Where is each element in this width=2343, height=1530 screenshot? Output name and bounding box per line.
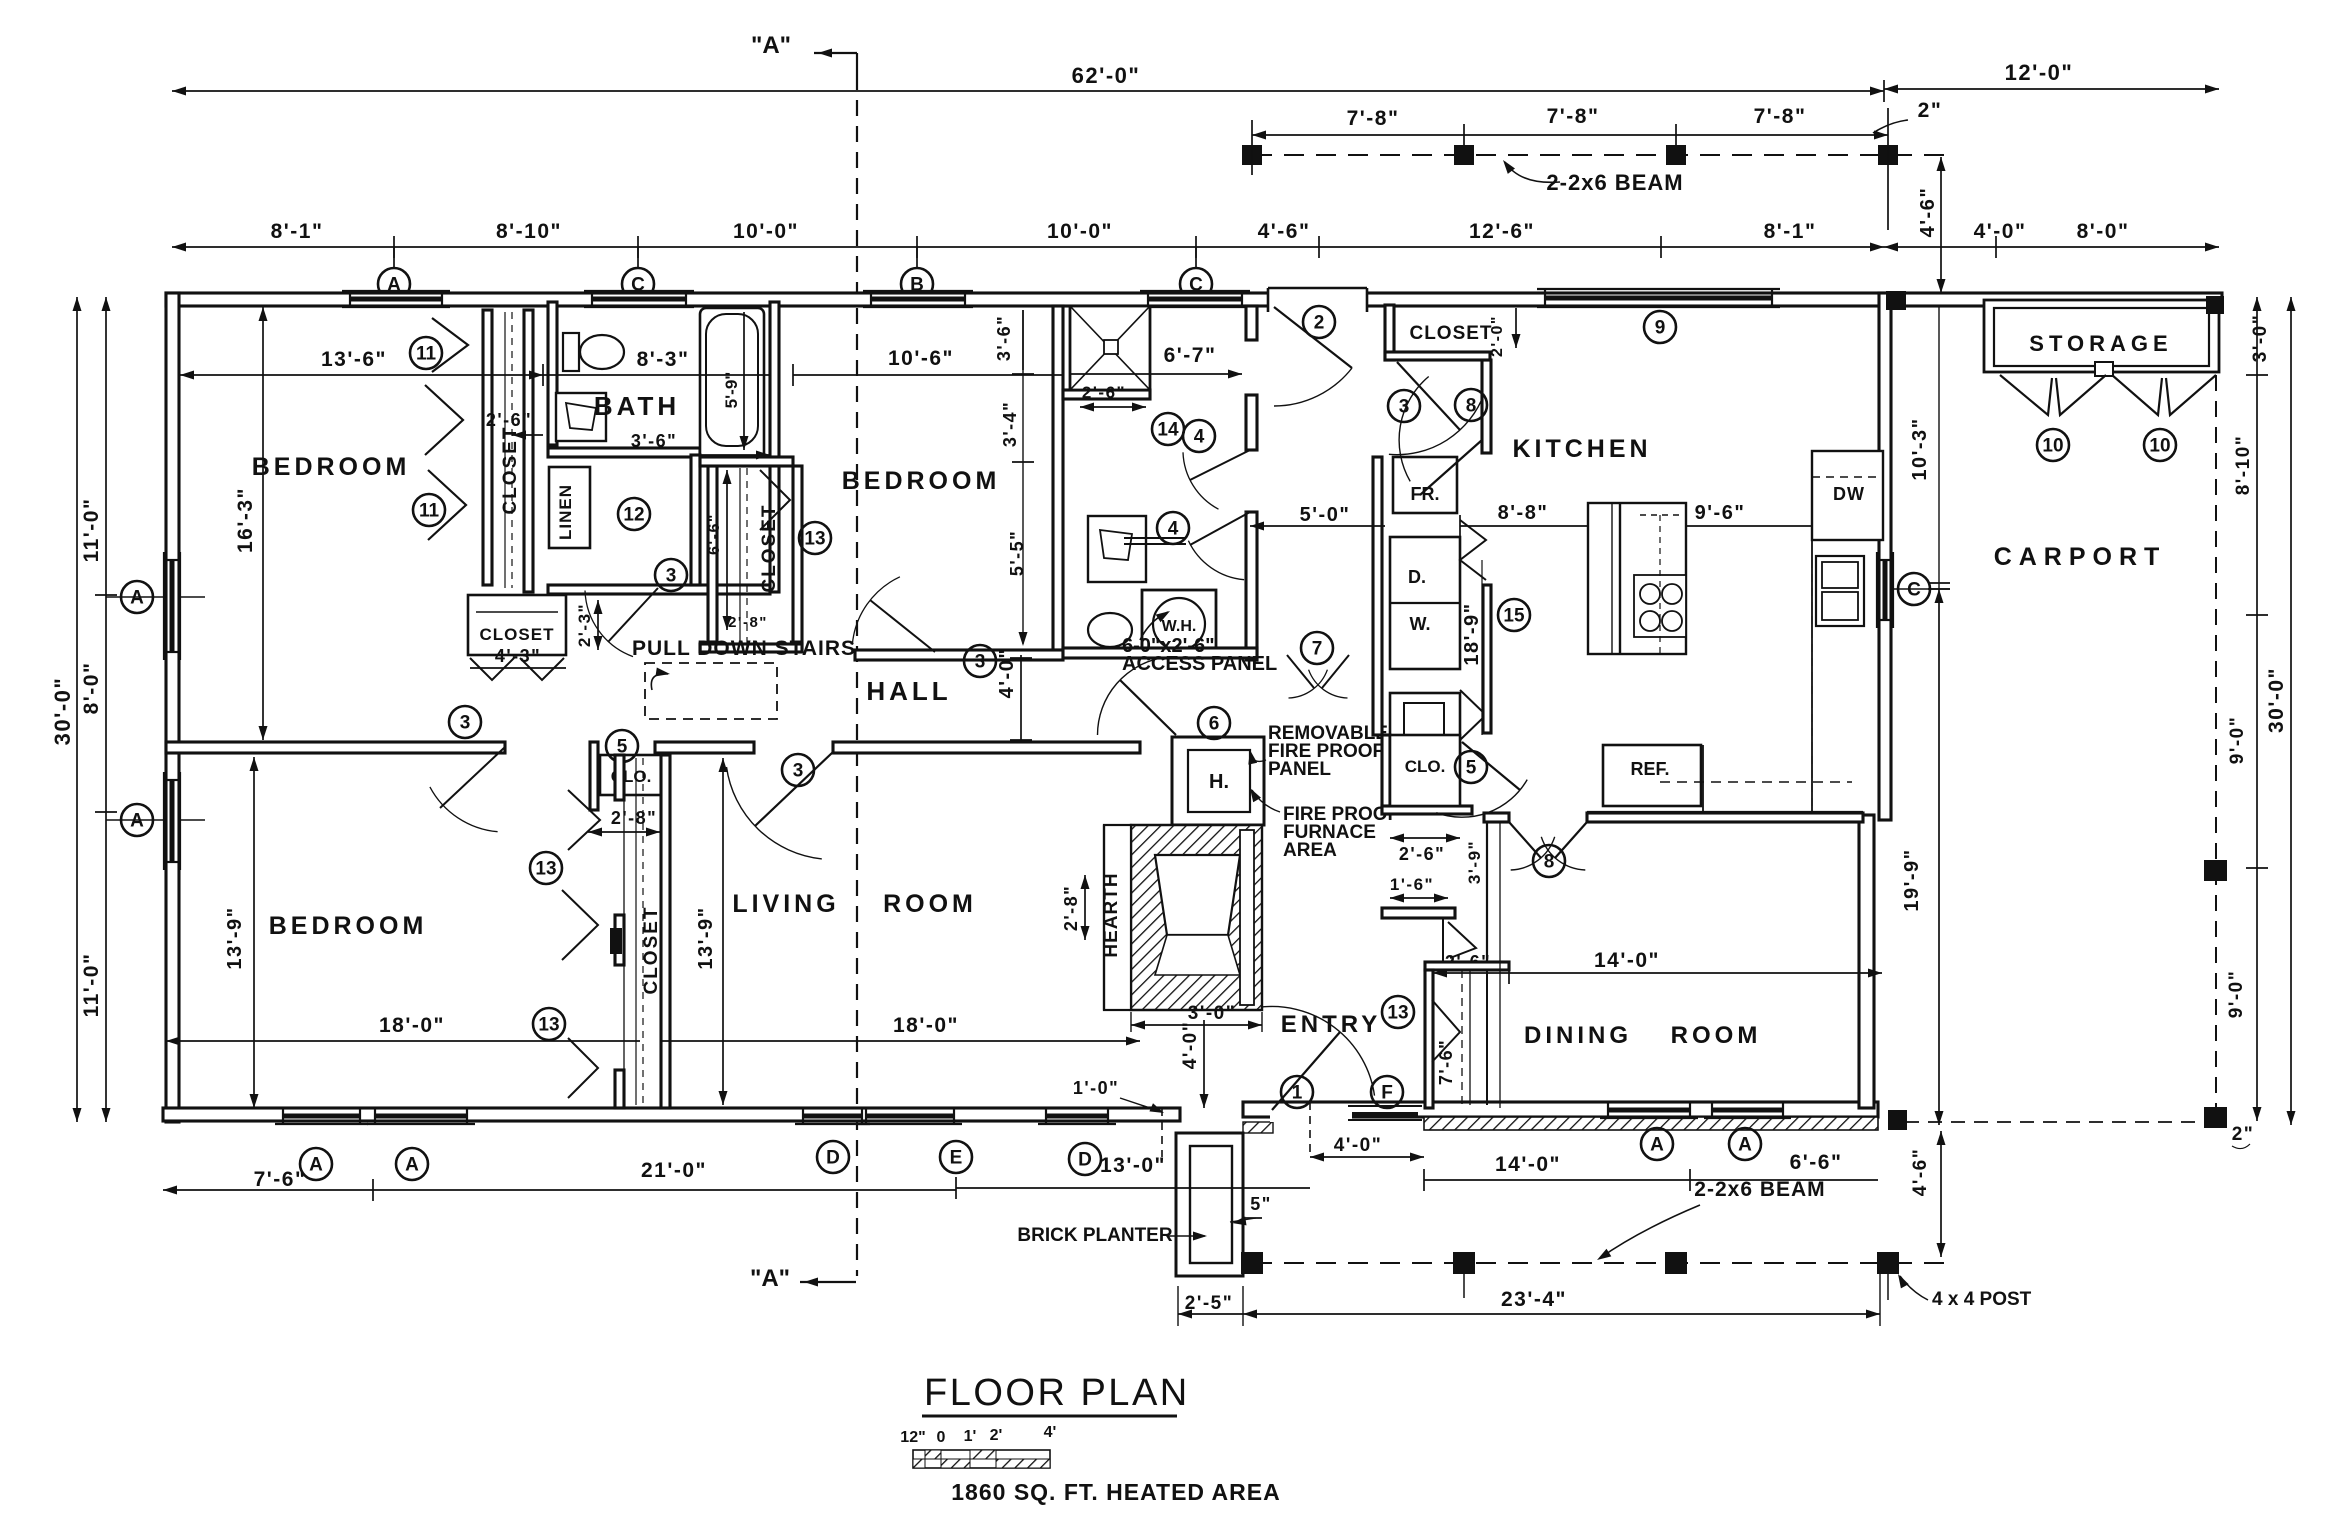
svg-text:3: 3 [975, 652, 986, 673]
svg-text:6'-7": 6'-7" [1164, 344, 1217, 367]
svg-text:12'-6": 12'-6" [1469, 220, 1535, 243]
svg-text:REF.: REF. [1630, 759, 1669, 779]
svg-text:62'-0": 62'-0" [1072, 63, 1141, 88]
svg-text:10'-3": 10'-3" [1909, 417, 1931, 480]
svg-text:2'-6": 2'-6" [486, 410, 532, 430]
svg-text:5'-0": 5'-0" [1300, 504, 1351, 526]
svg-text:8'-8": 8'-8" [1498, 502, 1549, 524]
svg-text:7: 7 [1312, 639, 1323, 660]
svg-text:CLOSET: CLOSET [641, 905, 662, 994]
svg-text:4: 4 [1194, 427, 1205, 448]
svg-text:BEDROOM: BEDROOM [842, 467, 1001, 495]
svg-text:18'-0": 18'-0" [893, 1014, 959, 1037]
svg-text:1'-0": 1'-0" [1073, 1078, 1119, 1098]
svg-text:13: 13 [804, 529, 825, 550]
svg-text:CLOSET: CLOSET [500, 425, 521, 514]
svg-text:3: 3 [460, 713, 471, 734]
svg-text:LIVING: LIVING [732, 890, 839, 918]
svg-text:W.H.: W.H. [1162, 618, 1197, 635]
svg-text:30'-0": 30'-0" [2265, 667, 2288, 733]
svg-text:D.: D. [1408, 567, 1426, 587]
svg-text:19'-9": 19'-9" [1901, 848, 1923, 911]
svg-text:H.: H. [1209, 771, 1229, 793]
svg-text:CLOSET: CLOSET [1409, 323, 1492, 344]
svg-text:7'-8": 7'-8" [1754, 105, 1807, 128]
svg-text:3: 3 [793, 761, 804, 782]
svg-text:FLOOR PLAN: FLOOR PLAN [924, 1372, 1190, 1414]
svg-text:E: E [950, 1148, 963, 1169]
svg-text:13: 13 [535, 859, 556, 880]
svg-text:CLO.: CLO. [1405, 757, 1446, 776]
svg-text:18'-9": 18'-9" [1461, 602, 1483, 665]
svg-text:4'-0": 4'-0" [996, 648, 1018, 699]
svg-text:4'-6": 4'-6" [1917, 187, 1939, 238]
svg-text:2'-3": 2'-3" [575, 603, 594, 647]
svg-text:13'-6": 13'-6" [321, 348, 387, 371]
svg-text:2'-0": 2'-0" [1489, 315, 1506, 357]
svg-text:11'-0": 11'-0" [80, 498, 103, 563]
svg-text:6: 6 [1209, 714, 1220, 735]
svg-text:2-2x6 BEAM: 2-2x6 BEAM [1546, 170, 1683, 195]
svg-text:D: D [826, 1148, 840, 1169]
svg-text:DINING: DINING [1524, 1022, 1632, 1049]
svg-text:9'-0": 9'-0" [2226, 970, 2247, 1019]
svg-text:8'-0": 8'-0" [2077, 220, 2130, 243]
svg-text:W.: W. [1410, 614, 1431, 634]
svg-text:13: 13 [1387, 1003, 1408, 1024]
svg-text:7'-6": 7'-6" [254, 1168, 307, 1191]
svg-text:2-2x6 BEAM: 2-2x6 BEAM [1694, 1178, 1825, 1201]
svg-text:CLOSET: CLOSET [480, 625, 555, 644]
svg-text:11: 11 [416, 344, 437, 365]
svg-text:1860 SQ. FT. HEATED AREA: 1860 SQ. FT. HEATED AREA [951, 1479, 1280, 1505]
svg-text:KITCHEN: KITCHEN [1512, 435, 1651, 463]
svg-text:ENTRY: ENTRY [1281, 1011, 1381, 1038]
svg-text:16'-3": 16'-3" [234, 487, 257, 553]
svg-text:2'-5": 2'-5" [1185, 1293, 1234, 1314]
svg-text:4'-0": 4'-0" [1334, 1135, 1383, 1156]
svg-text:5: 5 [1466, 758, 1477, 779]
svg-text:2: 2 [1314, 313, 1325, 334]
svg-text:3'-6": 3'-6" [631, 431, 677, 451]
svg-text:13'-9": 13'-9" [695, 906, 717, 969]
svg-text:"A": "A" [751, 32, 791, 59]
svg-text:4'-0": 4'-0" [1974, 220, 2027, 243]
svg-text:A: A [1738, 1135, 1752, 1156]
svg-text:F: F [1381, 1083, 1393, 1104]
svg-text:8'-10": 8'-10" [496, 220, 562, 243]
svg-text:8: 8 [1544, 852, 1555, 873]
svg-text:4 x 4 POST: 4 x 4 POST [1932, 1289, 2032, 1310]
svg-text:ROOM: ROOM [1671, 1022, 1762, 1049]
svg-text:12: 12 [623, 505, 644, 526]
svg-text:C: C [1907, 580, 1921, 601]
svg-text:12": 12" [900, 1429, 925, 1446]
svg-text:3'-0": 3'-0" [2250, 314, 2271, 363]
svg-text:9'-6": 9'-6" [1695, 502, 1746, 524]
svg-text:2'-8": 2'-8" [1061, 885, 1081, 931]
svg-text:CARPORT: CARPORT [1994, 543, 2167, 571]
svg-text:10'-0": 10'-0" [1047, 220, 1113, 243]
svg-text:8'-0": 8'-0" [80, 662, 103, 715]
svg-text:BATH: BATH [594, 391, 680, 421]
svg-text:1: 1 [1292, 1083, 1303, 1104]
svg-text:3'-4": 3'-4" [1000, 401, 1020, 447]
svg-text:14'-0": 14'-0" [1594, 949, 1660, 972]
svg-text:18'-0": 18'-0" [379, 1014, 445, 1037]
svg-text:5'-9": 5'-9" [722, 372, 741, 409]
svg-text:15: 15 [1503, 606, 1525, 627]
svg-text:2": 2" [1918, 99, 1943, 122]
svg-text:BRICK PLANTER: BRICK PLANTER [1017, 1225, 1172, 1246]
svg-text:14'-0": 14'-0" [1495, 1153, 1561, 1176]
svg-text:PANEL: PANEL [1268, 759, 1331, 780]
svg-text:6'-6": 6'-6" [1790, 1151, 1843, 1174]
svg-text:9: 9 [1655, 318, 1666, 339]
svg-text:7'-8": 7'-8" [1347, 107, 1400, 130]
svg-text:3: 3 [666, 566, 677, 587]
svg-text:11'-0": 11'-0" [80, 953, 103, 1018]
svg-text:A: A [130, 588, 144, 609]
svg-text:DW: DW [1833, 484, 1865, 504]
svg-text:10: 10 [2149, 436, 2170, 457]
svg-text:4: 4 [1168, 519, 1179, 540]
svg-text:2': 2' [990, 1427, 1003, 1444]
svg-text:2'-8": 2'-8" [611, 808, 657, 828]
svg-text:9'-0": 9'-0" [2227, 716, 2248, 765]
svg-text:13'-0": 13'-0" [1100, 1154, 1166, 1177]
svg-text:10: 10 [2042, 436, 2063, 457]
svg-text:3: 3 [1399, 397, 1410, 418]
svg-text:4'-0": 4'-0" [1180, 1021, 1201, 1070]
svg-text:LINEN: LINEN [556, 484, 575, 540]
svg-text:1': 1' [964, 1428, 977, 1445]
svg-text:5": 5" [1250, 1194, 1272, 1214]
svg-text:D: D [1078, 1150, 1092, 1171]
svg-text:4'-6": 4'-6" [1258, 220, 1311, 243]
svg-text:30'-0": 30'-0" [50, 677, 75, 746]
svg-text:4': 4' [1044, 1424, 1057, 1441]
svg-text:4'-3": 4'-3" [495, 646, 541, 666]
svg-text:0: 0 [937, 1429, 946, 1446]
svg-text:ROOM: ROOM [883, 890, 977, 918]
svg-text:3'-9": 3'-9" [1465, 840, 1484, 884]
svg-text:14: 14 [1157, 420, 1179, 441]
svg-text:10'-0": 10'-0" [733, 220, 799, 243]
svg-text:13'-9": 13'-9" [224, 906, 246, 969]
svg-text:"A": "A" [750, 1265, 790, 1292]
svg-text:1'-6": 1'-6" [1390, 875, 1434, 894]
svg-text:21'-0": 21'-0" [641, 1159, 707, 1182]
svg-text:A: A [1650, 1135, 1664, 1156]
svg-text:PULL DOWN STAIRS: PULL DOWN STAIRS [632, 637, 856, 660]
svg-text:8'-1": 8'-1" [271, 220, 324, 243]
svg-text:A: A [309, 1155, 323, 1176]
svg-text:2'-6": 2'-6" [1082, 383, 1126, 402]
svg-text:2'-8": 2'-8" [728, 614, 768, 631]
svg-text:CLOSET: CLOSET [759, 503, 780, 592]
svg-text:3'-6": 3'-6" [994, 315, 1014, 361]
svg-text:8'-10": 8'-10" [2233, 435, 2254, 496]
svg-text:7'-8": 7'-8" [1547, 105, 1600, 128]
svg-text:11: 11 [419, 501, 440, 522]
svg-text:AREA: AREA [1283, 840, 1337, 861]
svg-text:STORAGE: STORAGE [2029, 331, 2172, 356]
svg-text:HALL: HALL [866, 676, 951, 706]
svg-text:5'-5": 5'-5" [1007, 530, 1027, 576]
svg-text:4'-6": 4'-6" [1910, 1148, 1931, 1197]
svg-text:8'-1": 8'-1" [1764, 220, 1817, 243]
svg-text:FR.: FR. [1411, 484, 1440, 504]
svg-text:2'-6": 2'-6" [1399, 844, 1445, 864]
svg-text:ACCESS PANEL: ACCESS PANEL [1122, 653, 1277, 675]
svg-text:A: A [130, 811, 144, 832]
svg-text:BEDROOM: BEDROOM [269, 912, 428, 940]
svg-text:A: A [405, 1155, 419, 1176]
svg-text:12'-0": 12'-0" [2005, 60, 2074, 85]
svg-text:2": 2" [2232, 1124, 2255, 1145]
svg-text:10'-6": 10'-6" [888, 347, 954, 370]
svg-text:8'-3": 8'-3" [637, 348, 690, 371]
svg-text:6'-6": 6'-6" [706, 513, 723, 555]
svg-text:23'-4": 23'-4" [1501, 1288, 1567, 1311]
svg-text:BEDROOM: BEDROOM [252, 453, 411, 481]
svg-text:13: 13 [538, 1015, 559, 1036]
